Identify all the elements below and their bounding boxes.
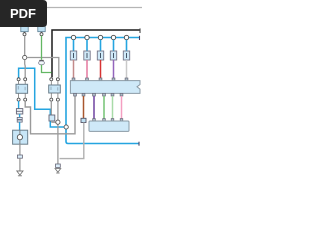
tab W1: [72, 78, 75, 81]
node bus circle N5: [124, 35, 128, 39]
wire gray J1 to right relay: [27, 58, 59, 78]
tab W5: [125, 78, 128, 81]
fuse block FB1: [70, 51, 76, 60]
wire gray left relay to bar1 (down-around): [25, 96, 75, 134]
connector pin P1 under badge: [21, 26, 28, 32]
wire gray from P1: [24, 36, 26, 56]
fuse block FB4: [110, 51, 116, 60]
PDF badge: [0, 0, 47, 27]
tab W6: [74, 93, 77, 96]
relay K2 (right): [50, 78, 53, 81]
tab box2 a: [93, 119, 96, 121]
junction bar JB1: [70, 81, 140, 94]
wire cyan stub 4: [113, 40, 115, 51]
node junction circle J1: [23, 55, 27, 59]
tab W9: [103, 93, 106, 96]
wire cyan stub 5: [126, 40, 128, 51]
node junction circle B: [64, 125, 68, 129]
connector pair C1: [19, 114, 21, 117]
tab W4: [112, 78, 115, 81]
noise filter symbol on green wire: [39, 59, 43, 61]
tab W7: [82, 93, 85, 96]
wire cyan stub 1: [73, 40, 75, 51]
bus line B+ (top gray): [46, 7, 142, 9]
relay K1 (left): [18, 77, 20, 80]
tick end cyan bottom: [138, 142, 140, 146]
connector pin P2 under badge: [38, 26, 45, 32]
wire cyan stub 3: [100, 40, 102, 51]
wire rose W1: [73, 60, 75, 79]
connector C3: [56, 164, 61, 167]
tab W11: [120, 93, 123, 96]
tab W8: [93, 93, 96, 96]
fuse F1: [16, 109, 22, 114]
wire black (main black feed): [52, 30, 140, 77]
wire cyan stub 2: [86, 40, 88, 51]
wire gray J1 down to left relay: [24, 60, 27, 78]
tab box2 c: [111, 119, 114, 121]
wire gray to ground: [19, 158, 21, 174]
wire cyan bus: [66, 38, 140, 128]
fuse block FB5: [123, 51, 129, 60]
wire cyan into lamp: [19, 122, 21, 130]
svg-text:PDF: PDF: [10, 6, 36, 21]
wire violet W4: [113, 60, 115, 79]
node bus circle N1: [71, 35, 75, 39]
ground G1: [17, 171, 23, 175]
wire gray from C4 to ground run: [60, 123, 84, 159]
wire gray right relay to ground: [57, 101, 59, 164]
wire darkviolet W8: [93, 96, 95, 119]
tick end black wire: [139, 28, 141, 33]
fuse block FB3: [97, 51, 103, 60]
tab W2: [86, 78, 89, 81]
wire white W5: [126, 60, 128, 79]
wire pink W11: [121, 96, 123, 119]
wire green W9: [103, 96, 105, 119]
wire red W3: [100, 60, 102, 79]
wire green from P2: [41, 36, 43, 60]
connector C4 on brown wire: [81, 118, 86, 122]
wire green to black junction: [42, 65, 52, 73]
node bus circle N4: [111, 35, 115, 39]
tab box2 d: [120, 119, 123, 121]
tick end cyan bus: [139, 36, 141, 40]
tab box2 b: [103, 119, 106, 121]
junction box JB2: [89, 121, 129, 131]
ground G2: [55, 169, 61, 173]
tab W3: [99, 78, 102, 81]
node bus circle N3: [98, 35, 102, 39]
node bus circle N2: [85, 35, 89, 39]
wire pink W2: [86, 60, 88, 79]
wire cyan branch to relay (S route): [19, 68, 65, 127]
wire cyan left relay down leg: [18, 101, 20, 109]
fuse F2 on right relay leg: [50, 101, 52, 115]
wire cyan drop + bottom run: [66, 127, 139, 144]
lamp L1 (box with circle): [13, 130, 28, 144]
node junction circle A: [56, 120, 60, 124]
connector C2: [17, 155, 22, 158]
wire ltgreen W10: [112, 96, 114, 119]
wire brown W7: [83, 96, 85, 118]
wire gray lamp to ground: [19, 144, 21, 155]
tab W10: [111, 93, 114, 96]
fuse block FB2: [84, 51, 90, 60]
